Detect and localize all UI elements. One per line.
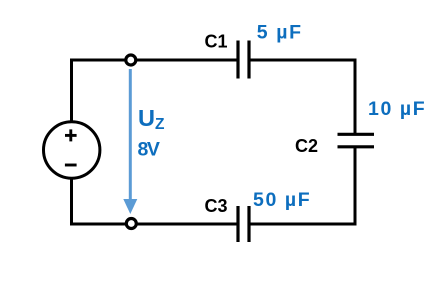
wire right vertical upper <box>354 59 357 134</box>
voltage source plus sign <box>65 129 77 141</box>
svg-text:C2: C2 <box>295 136 318 156</box>
wire bottom-left horizontal <box>70 223 237 226</box>
voltage source minus sign <box>65 164 77 167</box>
svg-text:C1: C1 <box>205 32 228 52</box>
wire top-left horizontal <box>70 59 237 62</box>
wire left vertical lower <box>70 178 73 226</box>
wire right vertical lower <box>354 147 357 226</box>
node bottom (open circle) <box>126 219 136 229</box>
svg-text:10 µF: 10 µF <box>368 98 426 120</box>
capacitor C1 plates <box>238 41 249 79</box>
wire left vertical upper <box>70 59 73 124</box>
svg-text:50 µF: 50 µF <box>253 189 311 211</box>
capacitor C2 plates <box>338 134 375 147</box>
svg-text:C3: C3 <box>205 196 228 216</box>
svg-text:UZ: UZ <box>138 105 165 133</box>
voltage source U1 circle <box>43 122 99 178</box>
arrow Uz (blue) <box>123 69 137 214</box>
svg-text:5 µF: 5 µF <box>257 22 303 44</box>
wire top-right horizontal <box>250 59 357 62</box>
node top (open circle) <box>126 55 136 65</box>
wire bottom-right horizontal <box>250 223 357 226</box>
svg-text:8V: 8V <box>138 139 160 161</box>
capacitor C3 plates <box>238 206 249 242</box>
